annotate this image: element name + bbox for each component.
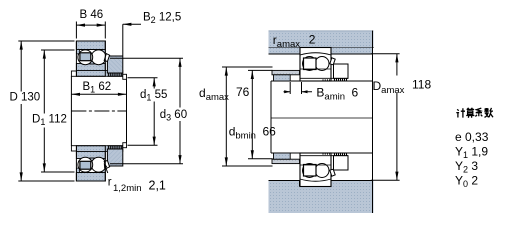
svg-text:1,2min: 1,2min: [113, 183, 142, 194]
svg-text:6: 6: [352, 86, 359, 100]
svg-text:D 130: D 130: [10, 92, 41, 104]
svg-text:D1 112: D1 112: [32, 114, 67, 128]
svg-text:66: 66: [263, 125, 277, 139]
svg-text:118: 118: [412, 78, 431, 92]
svg-text:2,1: 2,1: [149, 179, 166, 193]
svg-text:d3 60: d3 60: [160, 109, 187, 123]
svg-text:B1 62: B1 62: [83, 81, 112, 95]
svg-text:e 0,33: e 0,33: [455, 130, 489, 144]
svg-text:B2 12,5: B2 12,5: [143, 12, 181, 26]
svg-text:r: r: [108, 177, 112, 189]
svg-text:B 46: B 46: [80, 9, 104, 21]
svg-text:d1 55: d1 55: [140, 89, 167, 103]
svg-text:2: 2: [309, 33, 316, 47]
svg-text:76: 76: [236, 85, 250, 99]
svg-text:Y1 1,9: Y1 1,9: [455, 145, 488, 161]
